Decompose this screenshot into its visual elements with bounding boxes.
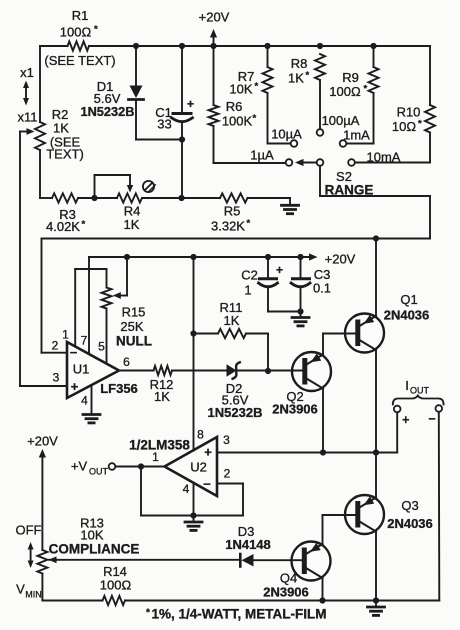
wire	[181, 140, 183, 199]
node j15	[265, 368, 271, 374]
wire pin1	[75, 269, 106, 346]
svg-text:1: 1	[62, 328, 69, 342]
contact 1uA	[250, 148, 292, 166]
wire	[268, 93, 291, 144]
svg-text:1K: 1K	[288, 71, 304, 86]
wire	[119, 370, 154, 372]
svg-text:3: 3	[53, 371, 60, 385]
svg-text:R15: R15	[122, 305, 146, 320]
terminal -	[428, 405, 442, 426]
svg-text:+: +	[276, 263, 283, 277]
ground	[185, 516, 202, 531]
svg-text:OFF: OFF	[16, 523, 42, 538]
svg-text:10µA: 10µA	[271, 127, 302, 142]
node j21	[138, 463, 144, 469]
svg-text:2: 2	[224, 467, 231, 481]
svg-text:Q3: Q3	[401, 498, 418, 513]
label VMIN	[16, 582, 42, 600]
contact 10mA	[348, 150, 401, 166]
contact 10uA	[271, 127, 302, 147]
wire	[320, 166, 430, 239]
wire	[355, 133, 430, 163]
wire pin7	[88, 257, 90, 354]
transistor Q4	[263, 542, 330, 600]
svg-text:TEXT): TEXT)	[46, 147, 84, 162]
wire	[396, 412, 398, 452]
svg-text:1K: 1K	[53, 121, 69, 136]
node j6	[370, 43, 376, 49]
capacitor C2	[241, 257, 283, 312]
potentiometer R2	[20, 107, 84, 162]
wire out	[115, 466, 164, 468]
transistor Q1	[345, 292, 429, 353]
label (SEE TEXT)	[44, 53, 115, 68]
resistor R11	[194, 300, 269, 371]
transistor Q3	[345, 495, 433, 534]
node j12	[190, 254, 196, 260]
wire	[322, 578, 324, 601]
node +20V mid	[309, 252, 356, 267]
svg-text:25K: 25K	[120, 319, 143, 334]
svg-text:10K: 10K	[80, 528, 103, 543]
wire	[217, 452, 397, 454]
svg-text:x1: x1	[20, 65, 34, 80]
node j20	[190, 512, 196, 518]
capacitor C3	[291, 257, 331, 312]
svg-text:NULL: NULL	[116, 334, 152, 349]
svg-text:4: 4	[183, 482, 190, 496]
resistor R3	[40, 193, 86, 234]
label OFF	[16, 523, 42, 569]
wire	[136, 139, 182, 141]
svg-text:6: 6	[123, 355, 130, 369]
svg-text:R9: R9	[342, 70, 359, 85]
ground	[282, 205, 299, 213]
diode D3	[225, 524, 271, 567]
wire	[193, 257, 195, 451]
svg-text:4.02K: 4.02K	[46, 219, 80, 234]
zener D2	[208, 362, 263, 420]
wire pin5	[106, 309, 108, 364]
node j18	[320, 449, 326, 455]
node j17	[297, 308, 303, 314]
svg-text:Q4: Q4	[280, 571, 297, 586]
svg-text:1: 1	[244, 283, 251, 298]
svg-text:V: V	[16, 582, 25, 597]
zener D1	[80, 46, 143, 140]
ground	[368, 601, 385, 616]
svg-text:4: 4	[81, 394, 88, 408]
wire	[20, 132, 67, 387]
svg-text:1mA: 1mA	[343, 128, 370, 143]
node j8	[91, 195, 97, 201]
resistor R6	[209, 46, 257, 129]
svg-text:OUT: OUT	[89, 467, 109, 477]
wire pin4	[91, 385, 93, 413]
wire	[323, 334, 356, 355]
node x1 x11 range arrow	[18, 65, 38, 125]
svg-text:3: 3	[223, 433, 230, 447]
svg-text:7: 7	[81, 334, 88, 348]
wire pin3	[216, 452, 218, 454]
svg-text:COMPLIANCE: COMPLIANCE	[49, 542, 140, 557]
wire	[248, 198, 291, 204]
potentiometer R15	[102, 257, 153, 349]
svg-text:100Ω: 100Ω	[329, 84, 361, 99]
wire	[40, 45, 136, 47]
node j5	[317, 43, 323, 49]
op-amp U1	[52, 328, 138, 408]
terminal +	[394, 406, 410, 427]
node j14	[297, 254, 303, 260]
resistor R7	[229, 46, 272, 97]
svg-text:R8: R8	[291, 56, 308, 71]
node j23	[373, 597, 379, 603]
svg-text:8: 8	[197, 428, 204, 442]
svg-text:1N5232B: 1N5232B	[80, 104, 134, 119]
node j13	[265, 254, 271, 260]
wire	[89, 256, 311, 258]
node +20V top	[199, 10, 230, 47]
resistor R9	[329, 46, 378, 99]
svg-text:R5: R5	[224, 204, 241, 219]
resistor R8	[288, 54, 325, 86]
resistor R14	[100, 564, 132, 605]
svg-text:−: −	[70, 345, 78, 360]
svg-text:+: +	[204, 445, 212, 460]
svg-text:−: −	[428, 412, 435, 426]
wire	[42, 238, 431, 240]
capacitor C1	[155, 46, 194, 140]
svg-text:10K: 10K	[229, 82, 252, 97]
svg-text:33: 33	[157, 117, 171, 132]
svg-text:100K: 100K	[222, 114, 253, 129]
potentiometer R13	[37, 516, 139, 574]
svg-text:Q1: Q1	[400, 292, 417, 307]
svg-text:2N3906: 2N3906	[263, 585, 309, 600]
svg-text:100Ω: 100Ω	[100, 578, 132, 593]
svg-text:C2: C2	[241, 268, 258, 283]
node j1	[133, 43, 139, 49]
svg-text:1K: 1K	[154, 389, 170, 404]
svg-text:*: *	[255, 81, 259, 92]
svg-text:100µA: 100µA	[322, 113, 360, 128]
svg-text:LF356: LF356	[100, 381, 138, 396]
svg-text:1%, 1/4-WATT, METAL-FILM: 1%, 1/4-WATT, METAL-FILM	[152, 607, 327, 622]
node j16	[190, 330, 196, 336]
svg-text:*: *	[418, 119, 422, 130]
wire	[78, 197, 117, 199]
svg-text:+V: +V	[71, 459, 88, 474]
wire	[319, 80, 321, 129]
resistor R10	[392, 46, 435, 134]
wire	[41, 574, 43, 601]
svg-text:R6: R6	[226, 99, 243, 114]
svg-text:1N5232B: 1N5232B	[208, 405, 263, 420]
svg-text:*: *	[247, 218, 251, 229]
ground	[83, 415, 100, 423]
svg-text:0.1: 0.1	[313, 281, 331, 296]
svg-text:MIN: MIN	[25, 590, 42, 600]
svg-text:2N4036: 2N4036	[384, 308, 430, 323]
svg-text:10Ω: 10Ω	[392, 119, 416, 134]
wire	[142, 197, 220, 199]
svg-text:10mA: 10mA	[367, 150, 401, 165]
svg-text:+20V: +20V	[199, 10, 230, 25]
wire	[254, 559, 303, 561]
op-amp U2	[129, 428, 231, 497]
svg-text:−: −	[203, 477, 211, 492]
svg-text:+20V: +20V	[325, 252, 356, 267]
svg-text:1: 1	[152, 450, 159, 464]
svg-text:x11: x11	[18, 110, 38, 125]
node j10	[373, 235, 379, 241]
wire	[375, 239, 377, 317]
wire	[42, 239, 68, 353]
wire	[375, 532, 377, 601]
wire	[268, 311, 301, 313]
ground	[292, 312, 309, 326]
svg-text:*: *	[82, 219, 86, 230]
contact 1mA	[340, 128, 370, 147]
svg-text:U1: U1	[73, 362, 90, 377]
label IOUT	[393, 378, 444, 405]
wire	[136, 45, 430, 47]
wire	[214, 126, 286, 163]
wire	[322, 389, 324, 453]
node j2	[179, 43, 185, 49]
svg-text:1/2LM358: 1/2LM358	[129, 438, 190, 453]
adjust symbol	[143, 181, 155, 192]
svg-text:*: *	[94, 24, 98, 35]
node j11	[124, 254, 130, 260]
wire	[375, 453, 377, 498]
node j19	[373, 449, 379, 455]
svg-text:U2: U2	[190, 460, 207, 475]
node j7	[179, 136, 185, 142]
wire	[56, 559, 240, 561]
svg-text:+: +	[402, 413, 409, 427]
svg-text:3.32K: 3.32K	[211, 219, 245, 234]
svg-text:+: +	[71, 379, 79, 394]
svg-text:2N4036: 2N4036	[387, 516, 433, 531]
trimmer R4	[95, 175, 143, 232]
svg-text:*: *	[253, 113, 257, 124]
svg-text:1N4148: 1N4148	[225, 537, 271, 552]
node j4	[264, 43, 270, 49]
svg-text:*: *	[306, 70, 310, 81]
svg-text:100Ω: 100Ω	[60, 25, 92, 40]
wire	[172, 370, 227, 372]
wire	[39, 46, 41, 122]
wire	[375, 350, 377, 453]
svg-text:I: I	[405, 378, 409, 393]
wire pin4	[193, 483, 195, 516]
wire	[39, 150, 41, 198]
contact 100uA	[317, 113, 360, 136]
svg-text:1µA: 1µA	[250, 148, 274, 163]
svg-text:+: +	[187, 97, 194, 111]
svg-text:R10: R10	[397, 105, 421, 120]
node j22	[319, 597, 325, 603]
wire	[323, 515, 356, 544]
node j3	[210, 43, 216, 49]
label footnote	[146, 607, 327, 622]
switch S2 wiper	[295, 159, 373, 198]
svg-text:OUT: OUT	[410, 386, 430, 396]
resistor R5	[211, 193, 250, 233]
wire	[346, 93, 373, 144]
svg-text:5: 5	[98, 340, 105, 354]
resistor R1	[60, 8, 98, 51]
svg-text:(SEE TEXT): (SEE TEXT)	[44, 53, 115, 68]
resistor R12	[150, 366, 174, 404]
svg-text:*: *	[364, 84, 368, 95]
svg-text:+20V: +20V	[27, 434, 58, 449]
svg-text:2: 2	[52, 339, 59, 353]
wire	[438, 412, 441, 601]
wire	[237, 370, 302, 372]
svg-text:2N3906: 2N3906	[272, 402, 318, 417]
svg-text:1K: 1K	[124, 217, 140, 232]
wire pin2 loop	[141, 467, 243, 516]
transistor Q2	[272, 352, 331, 417]
node j9	[178, 195, 184, 201]
svg-text:1K: 1K	[224, 313, 240, 328]
wire	[42, 600, 439, 602]
terminal +Vout	[71, 459, 115, 477]
node +20V lower	[27, 434, 58, 551]
svg-text:R1: R1	[72, 8, 89, 23]
svg-text:*: *	[146, 608, 150, 619]
